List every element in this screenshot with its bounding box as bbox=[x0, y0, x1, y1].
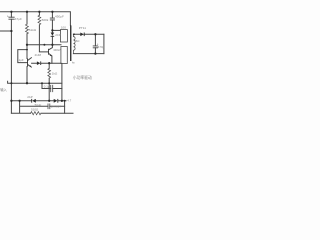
wire C2 to node bbox=[51, 20, 53, 31]
svg-text:0.1μF: 0.1μF bbox=[44, 85, 52, 89]
svg-text:510Ω: 510Ω bbox=[31, 107, 39, 111]
resistor R3 lead bbox=[48, 63, 50, 68]
svg-text:PT11: PT11 bbox=[79, 26, 86, 30]
wire base-diode row bbox=[32, 62, 61, 64]
node top R2 bbox=[26, 11, 28, 13]
wire output right edge bbox=[103, 34, 105, 53]
wire emitter Q2 bbox=[49, 54, 52, 64]
diode D3 bbox=[37, 61, 41, 65]
svg-text:输入: 输入 bbox=[0, 87, 7, 92]
transistor Q1 emitter arrow bbox=[29, 65, 31, 67]
node mid rail mark bbox=[43, 44, 45, 46]
node rail R3 bbox=[48, 82, 50, 84]
node input C1 bbox=[10, 30, 12, 32]
diode D5 bbox=[54, 99, 58, 103]
svg-text:500k: 500k bbox=[42, 18, 49, 22]
wire mid rail bbox=[27, 44, 61, 46]
svg-text:+: + bbox=[7, 14, 9, 18]
wire Q1 base vertical bbox=[26, 45, 28, 59]
wire secondary bottom rail bbox=[73, 53, 104, 55]
wire collector Q2 bbox=[49, 45, 53, 50]
capacitor C3 plates bbox=[93, 46, 97, 48]
capacitor Cb plates bbox=[48, 104, 50, 109]
node rail input cross bbox=[10, 82, 12, 84]
wire top rail bbox=[0, 12, 70, 26]
wire rail mid-bottom bbox=[8, 81, 62, 83]
wire sub line Cb bbox=[20, 101, 65, 113]
transformer winding W1 box bbox=[60, 30, 67, 42]
node mid rail R2 bbox=[26, 44, 28, 46]
resistor R2 zigzag bbox=[26, 24, 29, 34]
node rail Ca bbox=[41, 82, 43, 84]
wire R1 bottom to base bbox=[39, 25, 48, 52]
transformer winding W2 box bbox=[61, 47, 67, 64]
wire bottom rail bbox=[11, 100, 66, 102]
resistor R4 zigzag bbox=[31, 112, 41, 115]
svg-text:100: 100 bbox=[61, 26, 66, 30]
transistor Q2 emitter arrow bbox=[50, 55, 52, 57]
transistor Q1 bar bbox=[26, 59, 29, 67]
svg-text:2CP: 2CP bbox=[55, 33, 61, 37]
node bottom rail input bbox=[10, 100, 12, 102]
node output bottom bbox=[94, 52, 96, 54]
svg-text:47μF: 47μF bbox=[15, 17, 22, 21]
node top C2 bbox=[51, 11, 53, 13]
wire Q1 emitter bbox=[28, 65, 32, 68]
wire input top bbox=[0, 30, 11, 32]
node top C1 bbox=[10, 11, 12, 13]
wire secondary top bbox=[73, 33, 104, 35]
wire cap Ca branch bbox=[42, 83, 62, 88]
svg-text:1N4007: 1N4007 bbox=[51, 104, 62, 108]
svg-text:50μF: 50μF bbox=[35, 103, 42, 107]
wire Q1 loop bbox=[18, 50, 27, 63]
svg-text:小功率驱动: 小功率驱动 bbox=[73, 75, 92, 80]
node C2 D1 bbox=[51, 29, 53, 31]
resistor R1 lead bbox=[38, 12, 40, 15]
diode D1 lead bbox=[51, 30, 53, 44]
wire Q1 below bbox=[26, 67, 28, 84]
transformer secondary squiggle bbox=[73, 34, 75, 53]
node rail Q1 bbox=[26, 82, 28, 84]
svg-text:4148: 4148 bbox=[35, 53, 42, 57]
node emitter Q2 bbox=[48, 62, 50, 64]
svg-text:51kΩ: 51kΩ bbox=[29, 28, 37, 32]
node bottom rail T bbox=[61, 100, 63, 102]
wire R3 bottom bbox=[48, 78, 50, 100]
wire ground drop bbox=[64, 101, 66, 113]
capacitor C2 plates bbox=[50, 18, 54, 20]
node bottom rail R3 bbox=[48, 100, 50, 102]
wire T bottom drop bbox=[61, 63, 63, 100]
diode D4 bbox=[32, 99, 36, 103]
svg-text:1μF: 1μF bbox=[19, 58, 24, 62]
wire bottom line bbox=[11, 112, 73, 114]
node bottom rail gnd bbox=[64, 100, 66, 102]
node winding top bbox=[73, 33, 75, 35]
junction dots bbox=[10, 11, 96, 102]
wire R2 bottom bbox=[26, 34, 28, 45]
svg-text:450μF: 450μF bbox=[55, 14, 64, 18]
transformer core bbox=[70, 25, 71, 61]
node mid rail D1 bbox=[51, 44, 53, 46]
capacitor Ca plates bbox=[51, 85, 53, 91]
diode D1 bbox=[51, 33, 55, 36]
node top R1 bbox=[38, 11, 40, 13]
node output top bbox=[94, 33, 96, 35]
node bottom rail Cb bbox=[18, 100, 20, 102]
capacitor C2 lead bbox=[51, 12, 53, 18]
wire node to winding W1 bbox=[52, 29, 60, 31]
node Q1 branch bbox=[26, 49, 28, 51]
transistor Q2 bar bbox=[47, 49, 50, 55]
svg-text:1kΩ: 1kΩ bbox=[52, 71, 58, 75]
capacitor C1 plates bbox=[9, 17, 14, 19]
svg-text:4.7: 4.7 bbox=[67, 98, 71, 102]
svg-text:3DG6: 3DG6 bbox=[53, 48, 61, 52]
resistor R1 zigzag bbox=[38, 15, 41, 24]
diode D2 bbox=[80, 33, 84, 37]
wire input bottom drop bbox=[10, 83, 12, 113]
wire Q1 collector bbox=[28, 58, 32, 61]
capacitor C1 leads bbox=[10, 12, 12, 83]
svg-text:470μ: 470μ bbox=[98, 45, 105, 49]
resistor R2 lead bbox=[26, 12, 28, 24]
resistor R3 zigzag bbox=[48, 68, 51, 78]
capacitor C3 lead bbox=[94, 34, 96, 53]
svg-text:2AP: 2AP bbox=[27, 95, 33, 99]
